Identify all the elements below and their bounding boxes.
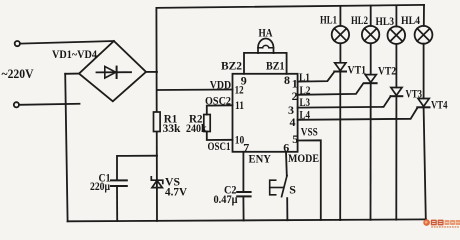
resistor R1 <box>154 112 161 132</box>
capacitor C2 <box>237 191 250 193</box>
wire VSS to rail <box>298 140 321 220</box>
svg-text:0.47μ: 0.47μ <box>214 192 238 206</box>
svg-text:BZ1: BZ1 <box>266 59 285 73</box>
wire switch S to bottom rail <box>286 198 288 220</box>
svg-text:12: 12 <box>235 83 244 97</box>
svg-text:VT4: VT4 <box>431 98 448 112</box>
lamp HL2 <box>362 26 379 43</box>
wire top AC input <box>20 41 114 44</box>
svg-text:7: 7 <box>243 140 249 154</box>
svg-text:5: 5 <box>292 132 298 146</box>
wire HL4 to VT4 anode <box>423 44 425 99</box>
wire bridge right stub <box>146 71 157 73</box>
svg-text:4.7V: 4.7V <box>165 185 187 199</box>
svg-text:8: 8 <box>284 73 290 87</box>
wire C1 branch <box>117 156 157 180</box>
wire bottom rail <box>68 219 426 221</box>
wire L1 <box>298 72 335 82</box>
svg-text:4: 4 <box>290 115 296 129</box>
svg-text:L1: L1 <box>299 70 310 84</box>
wire bridge left stub <box>65 73 79 75</box>
capacitor C1 <box>111 179 127 181</box>
lamp HL4 <box>415 26 433 44</box>
wire L2 <box>298 83 364 95</box>
wire main vertical bus (bridge + output) <box>155 8 158 221</box>
resistor R2 <box>204 115 210 132</box>
svg-text:11: 11 <box>235 98 244 112</box>
wire ENY / C2 branch <box>242 152 244 191</box>
svg-text:HA: HA <box>259 26 273 40</box>
svg-text:2: 2 <box>292 89 298 103</box>
svg-text:OSC2: OSC2 <box>205 94 231 108</box>
watermark logo <box>423 219 460 227</box>
lamp HL1 <box>332 26 349 43</box>
svg-text:L4: L4 <box>300 107 311 121</box>
terminal top <box>15 41 20 46</box>
wire HL2 to VT2 anode <box>370 43 372 74</box>
svg-text:VT3: VT3 <box>406 87 423 101</box>
wire top rail to HL1 <box>339 6 341 26</box>
wire L3 <box>298 96 391 107</box>
svg-text:ENY: ENY <box>249 151 272 165</box>
wire MODE <box>285 152 288 176</box>
svg-text:HL2: HL2 <box>351 13 368 27</box>
svg-text:OSC1: OSC1 <box>208 139 231 153</box>
thyristor VT3 <box>391 88 402 96</box>
svg-text:33k: 33k <box>163 121 181 135</box>
svg-text:VT2: VT2 <box>378 64 396 78</box>
svg-text:VDD: VDD <box>210 78 232 92</box>
wire bottom AC input <box>19 104 79 105</box>
svg-text:240k: 240k <box>186 121 207 135</box>
svg-text:VT1: VT1 <box>348 63 367 77</box>
wire VT1 cathode to bottom rail <box>339 72 341 221</box>
svg-text:HL3: HL3 <box>376 14 395 28</box>
bridge rectifier VD1~VD4 diamond <box>79 41 146 101</box>
switch S blade <box>282 176 287 197</box>
wire C2 to bottom rail <box>242 197 244 220</box>
wire OSC1 <box>207 132 233 141</box>
thyristor VT1 <box>335 63 346 71</box>
zener VS <box>151 177 163 184</box>
wire VT4 cathode to bottom rail <box>424 107 426 219</box>
svg-text:MODE: MODE <box>288 151 319 165</box>
switch S actuator bracket <box>270 180 276 195</box>
wire HL1 to VT1 anode <box>339 43 341 62</box>
diode inside bridge <box>97 71 132 73</box>
lamp HL3 <box>388 26 406 44</box>
wire top rail to HL3 <box>395 5 397 26</box>
buzzer HA dome <box>258 39 274 54</box>
svg-text:~220V: ~220V <box>2 66 35 81</box>
wire top rail to HL2 <box>370 6 372 26</box>
svg-text:6: 6 <box>283 140 289 154</box>
svg-text:HL4: HL4 <box>401 13 420 27</box>
wire VT3 cathode to bottom rail <box>395 96 397 220</box>
wire VDD feed <box>157 89 233 92</box>
wire VT2 cathode to bottom rail <box>370 83 372 220</box>
buzzer HA legs <box>244 53 287 74</box>
terminal bottom <box>14 102 19 107</box>
svg-text:220μ: 220μ <box>90 179 110 193</box>
wire L4 <box>298 108 418 120</box>
wire left vertical to bottom rail <box>65 74 67 222</box>
svg-text:HL1: HL1 <box>320 13 337 27</box>
thyristor VT2 <box>365 75 376 83</box>
wire top rail <box>156 5 424 8</box>
svg-text:S: S <box>289 183 296 197</box>
svg-text:VD1~VD4: VD1~VD4 <box>52 47 97 61</box>
wire C1 to rail <box>116 187 118 221</box>
svg-text:BZ2: BZ2 <box>221 59 242 73</box>
wire OSC2 <box>207 105 233 114</box>
IC U1 box <box>233 74 298 152</box>
wire HL3 to VT3 anode <box>395 44 397 87</box>
thyristor VT4 <box>418 99 429 107</box>
svg-text:VSS: VSS <box>301 125 318 139</box>
wire top rail to HL4 <box>423 5 425 26</box>
